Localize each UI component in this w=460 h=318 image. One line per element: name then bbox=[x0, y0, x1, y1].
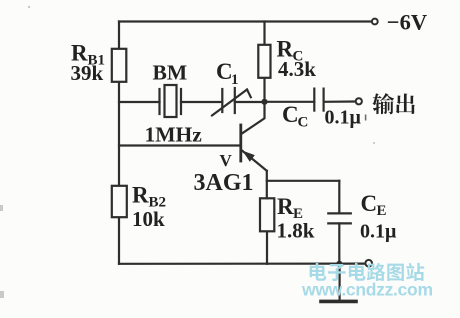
wire base bbox=[119, 144, 240, 146]
wire RC top bbox=[263, 22, 265, 45]
svg-text:V: V bbox=[220, 151, 233, 170]
crystal BM box bbox=[165, 85, 177, 117]
capacitor C1 plates bbox=[221, 89, 223, 112]
capacitor CE plates bbox=[328, 212, 351, 214]
transistor V emitter arrowhead bbox=[242, 151, 254, 162]
svg-text:C: C bbox=[282, 102, 299, 127]
scan specks bbox=[0, 6, 375, 298]
resistor RB1 bbox=[112, 49, 127, 82]
capacitor CC plates bbox=[313, 89, 315, 111]
svg-text:R: R bbox=[132, 183, 149, 208]
svg-text:10k: 10k bbox=[132, 207, 165, 231]
label shuchu output bbox=[372, 93, 394, 114]
bottom right terminal bbox=[365, 260, 372, 267]
svg-text:3AG1: 3AG1 bbox=[194, 170, 254, 196]
output terminal bbox=[356, 98, 362, 104]
svg-text:1: 1 bbox=[231, 72, 239, 88]
transistor V collector bbox=[242, 102, 265, 134]
svg-text:BM: BM bbox=[153, 61, 188, 85]
wire crystal to C1 bbox=[181, 101, 222, 103]
wire C1 to collector node bbox=[235, 101, 265, 103]
svg-text:E: E bbox=[377, 203, 387, 219]
wire top rail bbox=[119, 20, 371, 22]
wire left rail bbox=[118, 22, 120, 264]
svg-text:www.cndzz.com: www.cndzz.com bbox=[301, 280, 433, 300]
svg-text:R: R bbox=[277, 194, 294, 219]
svg-text:4.3k: 4.3k bbox=[278, 57, 316, 81]
svg-text:−6V: −6V bbox=[387, 10, 427, 35]
wire CE top bbox=[338, 181, 340, 213]
svg-text:0.1μ: 0.1μ bbox=[325, 107, 362, 129]
wire CE bottom bbox=[338, 223, 340, 263]
wire crystal row left bbox=[119, 101, 160, 103]
wire emitter horizontal bbox=[267, 180, 340, 182]
wire RE bottom bbox=[266, 231, 268, 263]
wire node to CC bbox=[265, 101, 315, 103]
svg-text:1MHz: 1MHz bbox=[145, 123, 203, 147]
node CE-ground junction bbox=[336, 261, 342, 267]
svg-text:C: C bbox=[298, 115, 309, 131]
wire RE top bbox=[266, 171, 268, 199]
svg-text:1.8k: 1.8k bbox=[277, 219, 315, 243]
svg-text:39k: 39k bbox=[71, 61, 104, 85]
wire RC bottom bbox=[263, 78, 265, 102]
resistor RC bbox=[258, 45, 270, 78]
resistor RB2 bbox=[112, 186, 127, 217]
ground bar bbox=[321, 300, 356, 304]
power terminal -6V bbox=[372, 19, 378, 25]
crystal BM plates bbox=[158, 89, 160, 114]
resistor RE bbox=[260, 198, 274, 231]
capacitor C1 arrow bbox=[212, 90, 247, 116]
node collector junction bbox=[261, 99, 267, 105]
svg-text:C: C bbox=[361, 191, 378, 216]
wire bottom rail bbox=[119, 263, 365, 265]
svg-text:0.1μ: 0.1μ bbox=[360, 221, 397, 243]
watermark site name bbox=[310, 263, 327, 281]
wire CC to output terminal bbox=[324, 100, 356, 103]
ground lead bbox=[339, 264, 341, 300]
transistor V base bar bbox=[239, 125, 242, 161]
transistor V emitter bbox=[242, 150, 267, 171]
